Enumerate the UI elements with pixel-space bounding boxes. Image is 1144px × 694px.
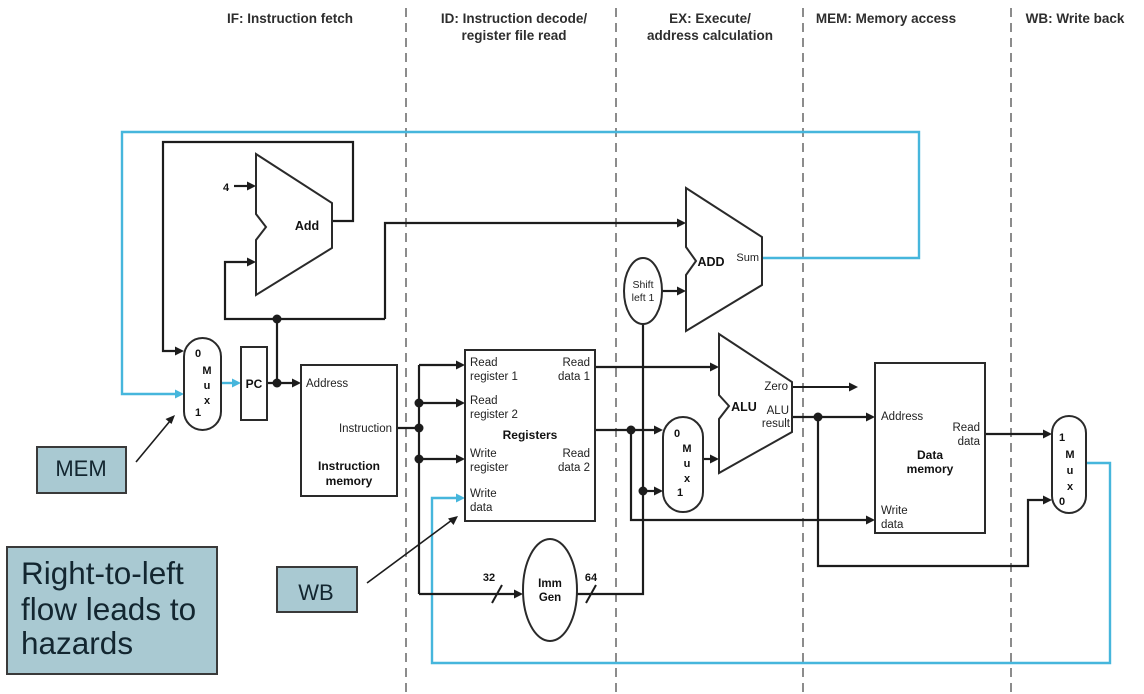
svg-text:left 1: left 1: [632, 292, 655, 304]
stage divider MEM/WB: [1010, 8, 1012, 694]
annotation arrow WB to Write data: [367, 516, 458, 583]
svg-text:result: result: [762, 418, 791, 430]
svg-text:Read: Read: [563, 448, 591, 460]
wire Read data 1 to ALU: [595, 363, 719, 372]
svg-text:Instruction: Instruction: [318, 459, 380, 473]
mux M3 (write-back): [1052, 416, 1086, 513]
stage divider EX/MEM: [802, 8, 804, 694]
svg-text:x: x: [684, 473, 691, 485]
svg-text:data 1: data 1: [558, 371, 590, 383]
wire instruction to Imm Gen: [419, 572, 523, 603]
svg-text:memory: memory: [907, 462, 954, 476]
mux M1 (PC source): [184, 338, 221, 430]
svg-text:address calculation: address calculation: [647, 28, 773, 43]
wire ALU result to Data memory Address and WB mux 0: [792, 413, 1052, 567]
svg-text:Read: Read: [470, 357, 498, 369]
wire PC value to EX ADD top input: [385, 219, 686, 320]
svg-text:data: data: [958, 436, 981, 448]
register file Registers: [465, 350, 595, 521]
immediate generator Imm Gen: [523, 539, 577, 641]
svg-text:EX: Execute/: EX: Execute/: [669, 11, 751, 26]
svg-text:Gen: Gen: [539, 592, 561, 604]
annotation box Right-to-left flow leads to hazards: [7, 547, 217, 674]
stage divider IF/ID: [405, 8, 407, 694]
svg-text:x: x: [204, 395, 211, 407]
svg-text:u: u: [684, 458, 691, 470]
svg-text:u: u: [204, 380, 211, 392]
stage title IF: [227, 11, 353, 26]
svg-text:Write: Write: [470, 448, 497, 460]
wire ALU Zero output: [792, 383, 858, 392]
svg-text:hazards: hazards: [21, 625, 133, 661]
wire Imm Gen output to mux and shift-left-1: [577, 324, 663, 603]
svg-text:Read: Read: [953, 422, 981, 434]
svg-text:1: 1: [677, 487, 683, 499]
svg-text:4: 4: [223, 182, 230, 194]
svg-text:M: M: [1065, 449, 1074, 461]
svg-text:PC: PC: [246, 377, 263, 391]
annotation box WB: [277, 567, 357, 612]
svg-text:memory: memory: [326, 474, 373, 488]
svg-text:0: 0: [1059, 496, 1065, 508]
svg-text:M: M: [682, 443, 691, 455]
svg-text:Zero: Zero: [764, 381, 788, 393]
wire branch-target Sum to PC-mux (cyan feedback): [122, 132, 919, 399]
shifter Shift left 1: [624, 258, 662, 324]
svg-text:Address: Address: [881, 411, 923, 423]
svg-text:register 1: register 1: [470, 371, 518, 383]
svg-text:x: x: [1067, 481, 1074, 493]
svg-text:Read: Read: [563, 357, 591, 369]
svg-text:64: 64: [585, 572, 598, 584]
mux M2 (ALU operand B): [663, 417, 703, 512]
stage title WB: [1026, 11, 1125, 26]
svg-text:register: register: [470, 462, 509, 474]
svg-text:data: data: [881, 519, 904, 531]
alu ALU: [719, 334, 792, 473]
svg-text:Registers: Registers: [503, 428, 558, 442]
wire PC value bus to Add lower input: [225, 258, 385, 320]
wire Mux to PC (cyan): [221, 379, 241, 388]
svg-text:ALU: ALU: [731, 400, 757, 414]
svg-text:Read: Read: [470, 395, 498, 407]
svg-text:0: 0: [674, 428, 680, 440]
svg-text:data 2: data 2: [558, 462, 590, 474]
svg-text:Sum: Sum: [736, 252, 759, 264]
svg-text:MEM: Memory access: MEM: Memory access: [816, 11, 956, 26]
svg-text:WB: Write back: WB: Write back: [1026, 11, 1125, 26]
svg-text:ALU: ALU: [767, 405, 789, 417]
svg-text:Right-to-left: Right-to-left: [21, 555, 184, 591]
svg-text:Address: Address: [306, 378, 348, 390]
svg-text:0: 0: [195, 348, 201, 360]
svg-text:32: 32: [483, 572, 495, 584]
svg-text:MEM: MEM: [55, 456, 106, 481]
annotation box MEM: [37, 447, 126, 493]
svg-text:Add: Add: [295, 219, 319, 233]
svg-text:u: u: [1067, 465, 1074, 477]
svg-text:IF: Instruction fetch: IF: Instruction fetch: [227, 11, 353, 26]
wire Instruction bus: [397, 361, 465, 595]
svg-text:ADD: ADD: [697, 255, 724, 269]
wire write-back Mux to Registers Write data (cyan): [432, 463, 1110, 663]
wire Shift left 1 to EX ADD: [662, 287, 686, 296]
wire PC+4 Add output to Mux input 0: [163, 142, 353, 356]
stage title ID: [441, 11, 588, 43]
wire constant 4 into Add: [223, 182, 256, 195]
wire PC output to Instruction memory Address: [267, 379, 301, 388]
svg-text:register file read: register file read: [461, 28, 566, 43]
svg-text:data: data: [470, 502, 493, 514]
memory Instruction memory: [301, 365, 397, 496]
stage title EX: [647, 11, 773, 43]
wire Data memory Read data to WB mux 1: [984, 430, 1052, 439]
svg-text:Imm: Imm: [538, 578, 562, 590]
svg-text:flow leads to: flow leads to: [21, 591, 196, 627]
svg-text:Write: Write: [881, 505, 908, 517]
adder ADD (branch target): [686, 188, 762, 331]
annotation arrow MEM to mux: [136, 415, 175, 462]
wire Read data 2 to ALU mux and Data memory Write data: [595, 426, 875, 525]
svg-text:Shift: Shift: [632, 279, 653, 291]
wire ALU mux output to ALU: [703, 455, 719, 464]
node PC bus junction: [273, 315, 282, 384]
svg-text:1: 1: [1059, 432, 1065, 444]
adder Add (PC+4): [256, 154, 332, 295]
svg-text:Data: Data: [917, 448, 943, 462]
svg-text:register 2: register 2: [470, 409, 518, 421]
register PC: [241, 347, 267, 420]
stage divider ID/EX: [615, 8, 617, 694]
svg-text:Write: Write: [470, 488, 497, 500]
svg-text:M: M: [202, 365, 211, 377]
svg-text:Instruction: Instruction: [339, 423, 392, 435]
svg-text:ID: Instruction decode/: ID: Instruction decode/: [441, 11, 588, 26]
stage title MEM: [816, 11, 956, 26]
svg-text:1: 1: [195, 407, 201, 419]
svg-text:WB: WB: [298, 580, 333, 605]
memory Data memory: [875, 363, 985, 533]
